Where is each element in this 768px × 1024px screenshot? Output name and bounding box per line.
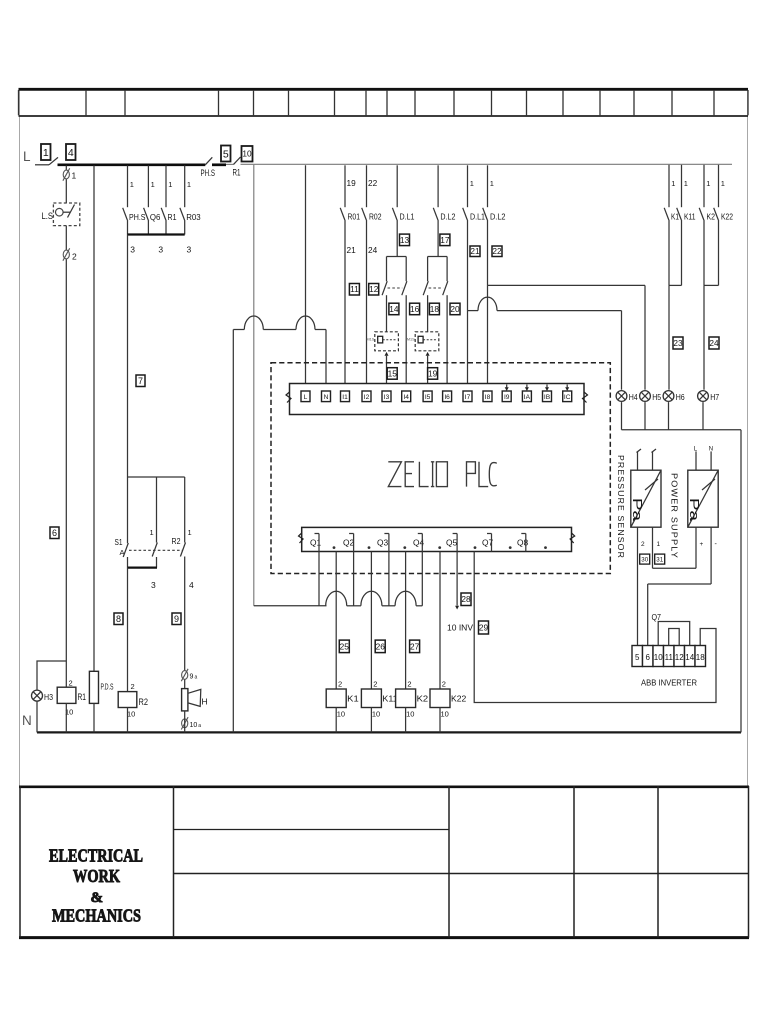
wire PLC L terminal feeder: [304, 165, 308, 391]
bus L thick segment: [58, 163, 206, 166]
contact K2: [699, 165, 715, 286]
PLC output Q2: [343, 534, 370, 552]
node 29 wire-number box: [479, 621, 489, 634]
contact R01 to PLC input: [340, 165, 360, 391]
svg-text:2: 2: [442, 680, 446, 689]
svg-text:S1: S1: [115, 537, 123, 547]
svg-text:10: 10: [337, 710, 345, 719]
wire I8 node to lamp H5: [488, 285, 646, 389]
rail joining selector group: [128, 233, 185, 235]
svg-text:10: 10: [127, 710, 135, 719]
svg-text:I1: I1: [342, 394, 348, 401]
PLC terminal I4: [402, 391, 411, 402]
PLC terminal IA: [522, 391, 531, 402]
wire K2 coil to N: [405, 708, 407, 733]
svg-text:IA: IA: [524, 394, 531, 401]
node 8 wire-number box: [114, 613, 123, 625]
contact K11: [677, 165, 696, 286]
contactor coil D.L1: [366, 332, 398, 351]
svg-text:1: 1: [684, 179, 688, 188]
wire L lead-in: [35, 164, 49, 166]
svg-text:11: 11: [350, 284, 359, 294]
horn H: [182, 689, 208, 711]
svg-text:7: 7: [138, 376, 143, 386]
wire K1-K11 junction to lamp H6: [669, 285, 682, 389]
svg-text:1: 1: [671, 179, 675, 188]
contact D.L2 to I8 and lamp H5: [483, 165, 506, 391]
svg-text:21: 21: [470, 246, 480, 256]
sensor top leads: [637, 449, 657, 470]
node 12 wire-number box: [369, 284, 379, 296]
svg-text:4: 4: [68, 147, 74, 159]
svg-text:I6: I6: [444, 394, 450, 401]
contact R1 in selector group: [161, 166, 176, 235]
svg-text:6: 6: [52, 528, 57, 538]
svg-text:22: 22: [368, 178, 378, 188]
power supply unit: [687, 470, 718, 527]
svg-text:25: 25: [340, 641, 350, 651]
wire K11 coil to N: [370, 708, 372, 733]
node 1 wire-number box: [41, 144, 51, 160]
svg-text:22: 22: [492, 246, 502, 256]
svg-text:2: 2: [407, 680, 411, 689]
node 16 wire-number box: [410, 303, 420, 315]
svg-text:10: 10: [242, 149, 252, 159]
contact R2 1-4: [172, 477, 195, 590]
mechanical link S1-R2 dashed: [129, 549, 183, 551]
svg-text:14: 14: [389, 304, 399, 314]
svg-text:30: 30: [641, 556, 648, 563]
svg-text:I5: I5: [425, 394, 431, 401]
wire Q7 to inverter 18: [474, 552, 716, 703]
wire horn to N: [184, 711, 186, 733]
twin contact D.L2 left pole: [423, 257, 428, 332]
svg-text:20: 20: [450, 304, 460, 314]
svg-text:D.L1: D.L1: [400, 212, 415, 222]
plug contact 1: [63, 168, 70, 180]
svg-text:K2: K2: [417, 694, 429, 704]
PLC terminal I3: [382, 391, 391, 402]
rail D.L2 twin contacts: [428, 256, 448, 258]
svg-text:POWER SUPPLY: POWER SUPPLY: [669, 473, 679, 559]
ABB inverter terminal block: [632, 646, 706, 667]
twin contact D.L1 left pole: [382, 257, 387, 332]
svg-text:11: 11: [665, 653, 674, 662]
svg-text:10: 10: [190, 722, 198, 729]
svg-text:K2: K2: [707, 212, 716, 222]
svg-text:10: 10: [441, 710, 449, 719]
svg-text:P.D.S: P.D.S: [101, 683, 114, 692]
rail above S1: [128, 476, 185, 478]
svg-text:26: 26: [376, 641, 386, 651]
svg-text:WORK: WORK: [73, 866, 120, 886]
PLC input terminal strip: [286, 384, 588, 415]
svg-text:1: 1: [187, 180, 191, 189]
svg-text:1: 1: [721, 179, 725, 188]
svg-text:Q8: Q8: [517, 537, 529, 547]
node 4 wire-number box: [66, 144, 76, 160]
wire LS to R1 coil: [65, 226, 67, 688]
wire power supply - to inverter 6: [648, 527, 718, 645]
node 24 wire-number box: [709, 337, 719, 349]
wire K22 coil to N: [439, 708, 441, 733]
PLC output terminal strip: [299, 527, 575, 551]
svg-text:PRESSURE SENSOR: PRESSURE SENSOR: [616, 455, 626, 559]
node 23 wire-number box: [673, 337, 683, 349]
node 21 wire-number box: [470, 246, 480, 257]
svg-text:31: 31: [656, 556, 663, 563]
node 20 wire-number box: [450, 303, 460, 315]
contact D.L1 auxiliary: [392, 165, 414, 256]
wire R2 contact to horn: [184, 557, 186, 689]
svg-text:H5: H5: [652, 393, 661, 402]
svg-text:IC: IC: [564, 394, 571, 401]
input stub arrow: [545, 385, 549, 392]
lamp H4: [616, 391, 627, 402]
lamp H3: [32, 690, 43, 701]
svg-text:29: 29: [479, 622, 489, 632]
PLC output Q7: [482, 534, 512, 552]
node 25 wire-number box: [339, 640, 349, 653]
relay coil K11: [361, 680, 397, 719]
pressure switch P.D.S: [89, 671, 113, 703]
PLC terminal I8: [483, 391, 492, 402]
rail D.L1 twin contacts: [387, 256, 407, 258]
svg-text:N: N: [22, 713, 32, 728]
svg-text:I9: I9: [504, 394, 510, 401]
svg-text:23: 23: [673, 338, 683, 348]
title block frame: [19, 786, 749, 938]
node 7 wire-number box: [136, 375, 145, 387]
relay coil K22: [430, 680, 466, 719]
svg-text:18: 18: [430, 304, 440, 314]
wire from node 10 to Q common bus: [253, 165, 255, 606]
svg-text:Q6: Q6: [150, 212, 161, 222]
PLC output Q1: [310, 534, 335, 552]
contactor coil D.L2: [407, 332, 439, 351]
svg-text:1: 1: [168, 180, 172, 189]
plug contact 9a: [181, 669, 188, 681]
rail below S1: [128, 566, 158, 568]
svg-text:5: 5: [635, 653, 640, 662]
node 6 wire-number box: [50, 527, 59, 539]
svg-text:K11: K11: [684, 212, 696, 222]
node 10 wire-number box: [242, 146, 253, 162]
wire Q3 common: [388, 552, 390, 606]
jumper inverter 10-14 (Q7): [652, 613, 690, 646]
node 11 wire-number box: [349, 284, 359, 296]
svg-text:MECHANICS: MECHANICS: [52, 906, 141, 926]
svg-text:2: 2: [338, 680, 342, 689]
svg-text:Q7: Q7: [652, 613, 662, 622]
input stub arrow: [525, 385, 529, 392]
svg-text:1: 1: [470, 179, 474, 188]
node 30 wire-number box: [640, 554, 650, 564]
svg-text:10 INV: 10 INV: [447, 624, 474, 633]
pressure sensor transducer: [630, 470, 661, 527]
PLC terminal I9: [502, 391, 511, 402]
wire N-return for PLC: [232, 330, 234, 733]
lamp H7: [698, 391, 709, 402]
svg-text:H6: H6: [676, 393, 685, 402]
svg-text:1: 1: [151, 180, 155, 189]
bus N bottom: [37, 731, 741, 733]
svg-text:1: 1: [150, 528, 154, 537]
wire PLC N terminal feeder: [233, 316, 328, 391]
title text ELECTRICAL WORK & MECHANICS: [49, 846, 143, 926]
wire K11 coil feed: [370, 552, 372, 690]
svg-text:19: 19: [428, 368, 438, 378]
svg-text:18: 18: [696, 653, 705, 662]
svg-text:L.S: L.S: [42, 211, 54, 221]
relay coil R2: [118, 682, 148, 719]
node 22 wire-number box: [492, 246, 502, 257]
node 26 wire-number box: [375, 640, 385, 653]
node 17 wire-number box: [440, 234, 450, 246]
input stub arrow: [505, 385, 509, 392]
PLC terminal N: [322, 391, 331, 402]
svg-text:I8: I8: [485, 394, 491, 401]
svg-text:N: N: [709, 447, 713, 453]
svg-text:R1: R1: [168, 212, 177, 222]
lamp H6: [663, 391, 674, 402]
wire sensor 1 to power supply +: [653, 527, 704, 568]
wire I7 node to lamp H4: [468, 297, 622, 390]
PLC dashed outline: [271, 363, 610, 574]
svg-text:PH.S: PH.S: [201, 168, 216, 178]
wire P.D.S to N: [93, 703, 95, 732]
PLC output Q3: [377, 534, 406, 552]
page right border: [747, 89, 749, 786]
svg-text:Q3: Q3: [377, 537, 389, 547]
PLC terminal I5: [423, 391, 432, 402]
svg-text:ABB INVERTER: ABB INVERTER: [641, 678, 697, 688]
svg-text:I2: I2: [364, 394, 370, 401]
svg-text:M1S: M1S: [407, 338, 415, 342]
node 19 wire-number box: [428, 368, 438, 380]
svg-text:R2: R2: [139, 697, 149, 707]
svg-text:L: L: [23, 149, 31, 164]
switch R1 on bus: [226, 157, 241, 178]
node 13 wire-number box: [400, 234, 410, 246]
svg-text:19: 19: [347, 178, 357, 188]
node 28 wire-number box: [461, 593, 471, 606]
svg-text:17: 17: [440, 235, 450, 245]
svg-text:Q2: Q2: [343, 537, 355, 547]
plug contact 2: [63, 248, 70, 260]
node 14 wire-number box: [389, 303, 399, 315]
svg-text:12: 12: [675, 653, 684, 662]
wire K2 coil feed: [405, 552, 407, 690]
svg-text:1: 1: [130, 180, 134, 189]
svg-text:&: &: [91, 890, 104, 906]
svg-text:1: 1: [72, 171, 77, 181]
mechanical link D.L2 dashed: [429, 287, 444, 289]
svg-text:4: 4: [189, 580, 194, 590]
wire Q4 common: [421, 552, 423, 606]
lamp H5: [640, 391, 651, 402]
svg-text:8: 8: [116, 614, 121, 624]
svg-text:15: 15: [388, 368, 398, 378]
wire K1 coil to N: [335, 708, 337, 733]
wire R2 coil to N: [127, 708, 129, 733]
svg-text:24: 24: [709, 338, 719, 348]
wire S1 to R2 coil: [127, 568, 129, 692]
contact D.L1 to I7 and lamp H4: [463, 165, 486, 391]
svg-text:R01: R01: [348, 212, 361, 222]
node 15 wire-number box: [387, 368, 397, 380]
PLC terminal I2: [362, 391, 371, 402]
svg-text:D.L2: D.L2: [440, 212, 455, 222]
wire R1 coil to N: [65, 703, 67, 732]
svg-text:Pa: Pa: [687, 498, 702, 522]
input stub arrow: [565, 385, 569, 392]
contact Q6 in selector group: [144, 166, 161, 235]
wire Q2 common: [353, 552, 355, 606]
svg-text:K22: K22: [451, 694, 466, 704]
svg-text:16: 16: [410, 304, 420, 314]
Q common bus from node 10: [254, 591, 422, 606]
svg-text:K22: K22: [721, 212, 733, 222]
svg-text:1: 1: [706, 179, 710, 188]
twin contact D.L2 right pole: [443, 257, 449, 392]
node 27 wire-number box: [410, 640, 420, 653]
contact K22: [714, 165, 734, 286]
svg-text:10: 10: [654, 653, 663, 662]
power supply top leads L N: [694, 447, 713, 471]
limit switch L.S: [42, 203, 80, 226]
wire K1 coil feed: [335, 552, 337, 690]
svg-text:K1: K1: [347, 694, 359, 704]
svg-text:Q1: Q1: [310, 537, 322, 547]
svg-text:D.L1: D.L1: [470, 212, 485, 222]
svg-text:14: 14: [685, 653, 694, 662]
svg-text:H4: H4: [629, 393, 638, 402]
PLC output Q5: [446, 534, 476, 552]
contact R03 in selector group: [180, 166, 201, 235]
wire group to S1 rail: [127, 235, 129, 478]
svg-text:9: 9: [174, 614, 179, 624]
page left border: [19, 89, 21, 786]
node 5 wire-number box: [221, 146, 231, 162]
svg-text:2: 2: [373, 680, 377, 689]
svg-text:1: 1: [657, 541, 661, 548]
wire sensor 2 to inverter 5: [638, 527, 646, 645]
svg-text:24: 24: [368, 245, 378, 255]
svg-text:3: 3: [130, 245, 135, 255]
wire drop to P.D.S: [93, 166, 95, 672]
svg-text:IB: IB: [544, 394, 551, 401]
svg-text:2: 2: [69, 679, 73, 688]
svg-text:1: 1: [188, 528, 192, 537]
PLC terminal I7: [463, 391, 472, 402]
svg-text:a: a: [195, 675, 198, 681]
wire H3 to N: [36, 702, 38, 733]
relay coil R1: [57, 679, 86, 717]
svg-text:6: 6: [646, 653, 651, 662]
svg-text:H3: H3: [44, 693, 53, 702]
twin contact D.L1 right pole: [402, 257, 408, 392]
svg-text:28: 28: [461, 594, 471, 604]
wire D.L2 coil to PLC input: [426, 352, 430, 391]
svg-text:2: 2: [131, 682, 135, 691]
switch S1 pole 1-3: [150, 477, 158, 590]
node 9 wire-number box: [172, 613, 181, 625]
svg-text:D.L2: D.L2: [490, 212, 506, 222]
svg-text:H7: H7: [710, 393, 719, 402]
svg-text:I4: I4: [403, 394, 409, 401]
svg-text:12: 12: [369, 284, 379, 294]
jumper inverter 11-12: [669, 629, 680, 646]
bus L right gray segment: [241, 163, 733, 165]
wire K2-K22 junction to lamp H7: [704, 285, 719, 389]
wire D.L1 coil to PLC input: [385, 352, 389, 391]
svg-text:+: +: [700, 541, 704, 548]
svg-text:2: 2: [641, 541, 645, 548]
wire Q1 common: [318, 552, 320, 606]
svg-text:I3: I3: [384, 394, 390, 401]
node 18 wire-number box: [429, 303, 439, 315]
switch PH.S on bus: [201, 157, 227, 178]
PLC terminal I1: [341, 391, 350, 402]
PLC terminal L: [301, 391, 310, 402]
svg-text:1: 1: [43, 147, 49, 159]
contact PH.S in selector group: [123, 166, 146, 235]
svg-text:R1: R1: [78, 692, 87, 702]
svg-text:10: 10: [372, 710, 380, 719]
svg-text:N: N: [324, 394, 329, 401]
top reference strip: [19, 89, 749, 116]
switch S1 pole A: [115, 477, 129, 568]
svg-text:R1: R1: [233, 168, 241, 178]
svg-text:M1S: M1S: [366, 338, 374, 342]
svg-text:1: 1: [490, 179, 494, 188]
svg-text:I7: I7: [465, 394, 471, 401]
wire Q5 to inverter 10 (arrow): [447, 552, 474, 633]
wire drop to limit switch: [65, 166, 67, 204]
contact D.L2 auxiliary: [433, 165, 455, 256]
mechanical link D.L1 dashed: [388, 287, 403, 289]
svg-text:a: a: [198, 723, 201, 729]
svg-text:27: 27: [410, 641, 420, 651]
svg-text:2: 2: [72, 252, 77, 262]
wire K22 coil feed: [439, 552, 441, 690]
PLC output Q8: [517, 534, 547, 552]
PLC terminal IC: [563, 391, 572, 402]
svg-text:3: 3: [158, 245, 163, 255]
svg-text:3: 3: [187, 245, 192, 255]
svg-text:Pa: Pa: [630, 498, 645, 522]
svg-text:13: 13: [400, 235, 410, 245]
disconnect switch contact 1-4: [49, 157, 58, 164]
plug contact 10a: [181, 717, 188, 729]
svg-text:R03: R03: [186, 212, 201, 222]
PLC terminal IB: [543, 391, 552, 402]
svg-text:H: H: [202, 697, 208, 707]
svg-text:R02: R02: [369, 212, 382, 222]
contact K1: [664, 165, 679, 286]
node 31 wire-number box: [655, 554, 665, 564]
svg-text:3: 3: [151, 580, 156, 590]
PLC terminal I6: [443, 391, 452, 402]
lamp return bus to N: [622, 402, 742, 732]
svg-text:21: 21: [347, 245, 357, 255]
relay coil K1: [326, 680, 359, 719]
svg-text:9: 9: [190, 674, 194, 681]
svg-text:PH.S: PH.S: [129, 212, 146, 222]
svg-text:5: 5: [223, 148, 229, 160]
svg-text:L: L: [304, 394, 308, 401]
